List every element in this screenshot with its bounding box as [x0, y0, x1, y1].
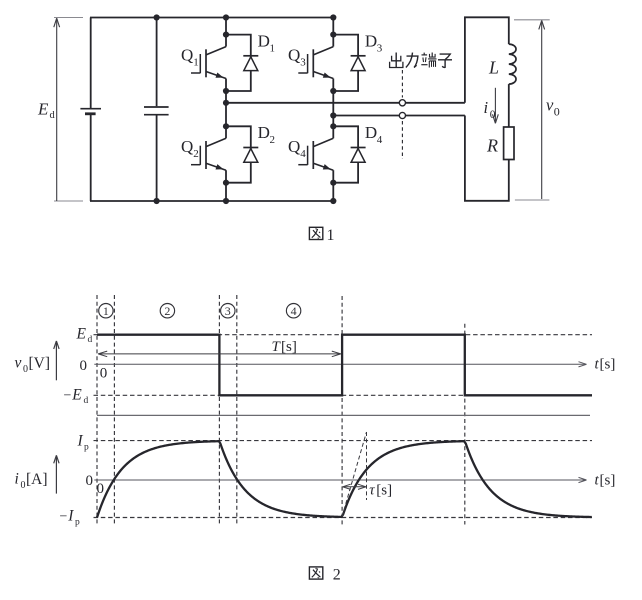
svg-text:E: E [76, 326, 87, 343]
svg-text:v: v [546, 96, 554, 115]
svg-text:2: 2 [164, 304, 170, 318]
svg-text:1: 1 [270, 42, 276, 54]
svg-text:v: v [15, 355, 22, 372]
svg-text:p: p [75, 518, 80, 528]
svg-text:I: I [77, 433, 84, 450]
svg-text:0: 0 [490, 109, 496, 121]
svg-text:Q: Q [181, 137, 193, 156]
svg-text:0: 0 [554, 105, 560, 119]
svg-text:3: 3 [377, 42, 383, 54]
svg-text:E: E [37, 100, 49, 119]
svg-text:−: − [60, 510, 68, 525]
svg-text:d: d [50, 110, 56, 121]
svg-text:E: E [71, 387, 82, 404]
svg-text:R: R [486, 136, 498, 156]
svg-text:D: D [258, 31, 270, 50]
svg-text:0: 0 [23, 364, 28, 375]
svg-text:p: p [84, 443, 89, 453]
svg-text:1: 1 [103, 304, 109, 318]
svg-text:d: d [88, 335, 93, 345]
svg-text:I: I [67, 508, 74, 525]
svg-text:[s]: [s] [376, 483, 392, 499]
svg-text:d: d [84, 396, 89, 406]
svg-text:4: 4 [291, 304, 297, 318]
svg-text:[V]: [V] [29, 355, 51, 372]
svg-text:0: 0 [97, 481, 105, 497]
svg-text:4: 4 [300, 148, 306, 160]
svg-text:i: i [484, 98, 489, 117]
svg-text:2: 2 [193, 148, 199, 160]
svg-text:L: L [488, 58, 499, 78]
svg-text:0: 0 [100, 365, 108, 381]
svg-text:D: D [365, 31, 377, 50]
svg-text:4: 4 [377, 134, 383, 146]
svg-text:0: 0 [21, 480, 26, 491]
svg-text:Q: Q [288, 46, 300, 65]
svg-text:0: 0 [86, 473, 94, 489]
svg-text:[s]: [s] [600, 357, 616, 373]
svg-text:Q: Q [288, 137, 300, 156]
svg-text:[s]: [s] [600, 473, 616, 489]
svg-text:1: 1 [327, 227, 335, 244]
svg-text:3: 3 [300, 57, 306, 69]
svg-text:2: 2 [333, 567, 341, 584]
svg-text:D: D [258, 123, 270, 142]
svg-text:τ: τ [369, 483, 375, 499]
svg-text:Q: Q [181, 46, 193, 65]
svg-text:−: − [64, 389, 72, 404]
svg-text:i: i [15, 471, 19, 488]
svg-text:0: 0 [80, 358, 88, 374]
svg-text:1: 1 [193, 57, 199, 69]
svg-text:[A]: [A] [26, 471, 48, 488]
svg-text:D: D [365, 123, 377, 142]
svg-text:3: 3 [225, 304, 231, 318]
svg-text:[s]: [s] [281, 339, 297, 355]
svg-text:2: 2 [270, 134, 276, 146]
